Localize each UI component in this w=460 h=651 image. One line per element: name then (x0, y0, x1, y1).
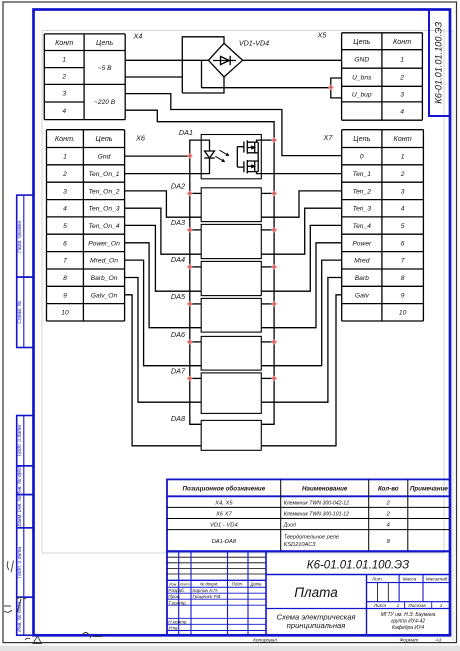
svg-text:X6: X6 (135, 134, 146, 143)
svg-text:DA2: DA2 (171, 181, 185, 190)
svg-text:№ докум.: № докум. (200, 581, 218, 586)
svg-text:4: 4 (387, 523, 390, 529)
svg-text:группа ИУ4-42: группа ИУ4-42 (391, 619, 425, 625)
svg-text:10: 10 (399, 310, 407, 317)
svg-text:Barb: Barb (355, 275, 369, 282)
svg-text:Масса: Масса (403, 577, 417, 582)
svg-text:МГТУ им. Н.Э. Баумана: МГТУ им. Н.Э. Баумана (381, 612, 436, 618)
svg-text:3: 3 (62, 91, 66, 98)
svg-text:9: 9 (63, 292, 67, 299)
svg-text:4: 4 (400, 108, 404, 115)
svg-text:Конт: Конт (55, 38, 73, 47)
svg-text:4: 4 (63, 206, 67, 213)
svg-text:Цепь: Цепь (95, 134, 112, 143)
svg-text:DA8: DA8 (171, 414, 186, 423)
svg-text:Лит.: Лит. (371, 577, 383, 582)
svg-text:10: 10 (61, 310, 69, 317)
svg-text:Кафедра ИУ4: Кафедра ИУ4 (392, 625, 424, 631)
svg-text:2: 2 (400, 171, 405, 178)
svg-text:Твердотельное реле: Твердотельное реле (284, 534, 339, 540)
svg-text:Наименование: Наименование (302, 486, 348, 493)
svg-text:X6 X7: X6 X7 (215, 512, 233, 518)
svg-text:X5: X5 (317, 31, 328, 40)
svg-text:Гриценко Р.В.: Гриценко Р.В. (193, 594, 222, 599)
svg-text:8: 8 (63, 275, 67, 282)
svg-text:DA6: DA6 (171, 330, 186, 339)
svg-text:Конт: Конт (394, 134, 412, 143)
svg-text:Т.контр.: Т.контр. (168, 600, 187, 605)
svg-text:5: 5 (63, 223, 67, 230)
svg-text:Ten_On_1: Ten_On_1 (89, 171, 120, 178)
svg-text:Gnd: Gnd (98, 154, 111, 161)
svg-text:Изм: Изм (169, 582, 176, 586)
svg-text:Galv_On: Galv_On (91, 292, 118, 299)
svg-text:4: 4 (401, 206, 405, 213)
svg-text:2: 2 (399, 75, 404, 82)
svg-text:4: 4 (62, 108, 66, 115)
svg-text:Инв. № подл.: Инв. № подл. (17, 601, 23, 632)
svg-text:3: 3 (401, 188, 405, 195)
svg-text:Лист: Лист (179, 582, 190, 586)
svg-text:2: 2 (61, 74, 66, 81)
svg-text:3: 3 (63, 188, 67, 195)
svg-text:Масштаб: Масштаб (426, 577, 448, 582)
svg-text:Листов: Листов (407, 603, 426, 609)
svg-text:Ten_1: Ten_1 (353, 171, 372, 178)
svg-text:Инв. № дубл.: Инв. № дубл. (17, 465, 23, 496)
svg-text:2: 2 (62, 171, 67, 178)
svg-text:Справ. №: Справ. № (17, 300, 23, 323)
svg-text:Пров.: Пров. (168, 594, 180, 599)
svg-text:Подп. и дата: Подп. и дата (17, 425, 23, 457)
svg-text:DA5: DA5 (171, 292, 186, 301)
svg-text:Подп. и дата: Подп. и дата (17, 547, 23, 579)
svg-text:Дата: Дата (249, 581, 262, 586)
svg-text:0: 0 (360, 154, 364, 161)
svg-text:1: 1 (62, 57, 66, 64)
svg-text:Ten_On_3: Ten_On_3 (89, 206, 120, 213)
svg-text:К6-01.01.01.100.ЭЗ: К6-01.01.01.100.ЭЗ (434, 22, 444, 104)
svg-text:VD1 - VD4: VD1 - VD4 (210, 523, 238, 529)
svg-text:принципиальная: принципиальная (287, 621, 346, 630)
svg-text:Mred: Mred (354, 258, 370, 265)
svg-text:Подп.: Подп. (232, 581, 243, 586)
svg-text:Power: Power (352, 240, 372, 247)
svg-text:Barb_On: Barb_On (91, 275, 118, 282)
svg-text:Утв.: Утв. (168, 626, 178, 631)
svg-text:Клеммник TWN 300-101-12: Клеммник TWN 300-101-12 (284, 512, 349, 518)
svg-text:Клеммник TWN 300-042-12: Клеммник TWN 300-042-12 (284, 501, 349, 507)
svg-text:DA1: DA1 (179, 128, 193, 137)
svg-text:GND: GND (354, 56, 369, 63)
svg-text:Galv: Galv (355, 292, 369, 299)
svg-text:VD1-VD4: VD1-VD4 (239, 39, 269, 48)
svg-text:~5 В: ~5 В (98, 65, 112, 72)
svg-text:Цепь: Цепь (353, 134, 370, 143)
svg-text:Перв. примен.: Перв. примен. (17, 219, 23, 252)
svg-text:Формат: Формат (399, 638, 418, 644)
svg-text:Лист: Лист (373, 603, 386, 609)
svg-text:1: 1 (397, 603, 400, 609)
svg-text:7: 7 (401, 258, 405, 265)
svg-text:DA3: DA3 (171, 218, 185, 227)
svg-text:Разраб.: Разраб. (168, 588, 185, 593)
svg-text:1: 1 (63, 154, 67, 161)
svg-text:Power_On: Power_On (88, 240, 120, 247)
svg-text:Примечание: Примечание (410, 486, 448, 493)
svg-text:Ten_4: Ten_4 (353, 223, 372, 230)
svg-text:Взам. инв. №: Взам. инв. № (17, 495, 23, 527)
svg-text:9: 9 (401, 292, 405, 299)
svg-text:U_bns: U_bns (352, 75, 372, 82)
svg-text:Ten_3: Ten_3 (353, 206, 372, 213)
svg-text:7: 7 (63, 258, 67, 265)
svg-text:1: 1 (401, 154, 405, 161)
svg-text:X4, X5: X4, X5 (214, 501, 233, 507)
svg-text:5: 5 (401, 223, 405, 230)
svg-text:Н.контр.: Н.контр. (168, 619, 187, 624)
svg-text:Диод: Диод (283, 523, 296, 529)
svg-text:DA4: DA4 (171, 255, 185, 264)
svg-text:Плата: Плата (294, 585, 338, 600)
svg-text:3: 3 (400, 92, 404, 99)
svg-text:Цепь: Цепь (353, 37, 370, 46)
svg-text:Конт.: Конт. (55, 134, 75, 143)
svg-text:DA7: DA7 (171, 366, 186, 375)
svg-text:DA1-DA8: DA1-DA8 (212, 539, 237, 545)
svg-text:Позиционное обозначение: Позиционное обозначение (183, 486, 266, 493)
svg-text:Конт: Конт (393, 37, 411, 46)
svg-text:X7: X7 (323, 133, 334, 142)
svg-text:Ten_2: Ten_2 (353, 188, 372, 195)
svg-text:1: 1 (400, 56, 404, 63)
svg-text:Кол-во: Кол-во (378, 486, 399, 493)
svg-text:Карпов Х.П.: Карпов Х.П. (193, 588, 219, 593)
svg-text:Ten_On_4: Ten_On_4 (89, 223, 120, 230)
svg-text:Mred_On: Mred_On (90, 258, 118, 265)
svg-text:~220 В: ~220 В (94, 99, 116, 106)
svg-text:Ten_On_2: Ten_On_2 (89, 188, 120, 195)
svg-text:8: 8 (401, 275, 405, 282)
svg-text:А3: А3 (435, 638, 442, 644)
svg-text:1: 1 (440, 603, 443, 609)
svg-text:К6-01.01.01.100.ЭЗ: К6-01.01.01.100.ЭЗ (307, 560, 409, 572)
svg-text:X4: X4 (133, 32, 143, 41)
svg-text:U_bup: U_bup (352, 92, 372, 99)
svg-text:6: 6 (63, 240, 67, 247)
svg-text:KSD210AC3: KSD210AC3 (284, 542, 317, 548)
svg-text:6: 6 (401, 240, 405, 247)
svg-text:Цепь: Цепь (96, 38, 113, 47)
svg-text:Копировал: Копировал (253, 638, 277, 644)
